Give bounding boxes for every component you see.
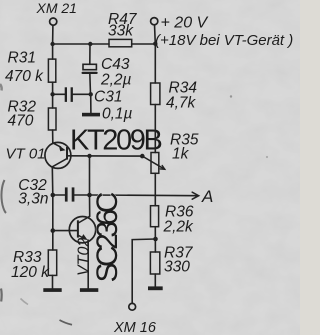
- scan artifact left edge dash lower: [0, 289, 3, 302]
- resistor R34: [151, 83, 160, 105]
- resistor R37: [150, 252, 159, 274]
- svg-text:(+18V bei VT-Gerät ): (+18V bei VT-Gerät ): [155, 32, 293, 49]
- VT02 collector: [79, 216, 90, 222]
- node C43/C31 junction: [89, 92, 93, 96]
- svg-text:120 k: 120 k: [11, 264, 50, 281]
- terminal XM16: [129, 303, 136, 310]
- wire collector node to VT02 base node: [52, 195, 54, 231]
- wire R32 to VT01: [52, 130, 54, 143]
- wire C32 to output node: [74, 194, 89, 196]
- node R35 wiper junction: [140, 154, 145, 159]
- svg-text:C31: C31: [94, 89, 122, 106]
- scan artifact left edge mark upper: [0, 84, 2, 91]
- VT01 emitter with arrow: [53, 143, 61, 147]
- resistor R31: [48, 59, 55, 82]
- svg-text:R31: R31: [8, 50, 36, 67]
- capacitor C31 right plate: [71, 87, 73, 102]
- arrow A: [192, 192, 199, 199]
- ground below R33: [43, 288, 61, 292]
- wire C43 branch down: [89, 44, 91, 64]
- wire R33 to ground: [52, 275, 54, 288]
- R35 wiper arrow: [142, 156, 164, 169]
- node C32/collector VT02 junction: [87, 193, 92, 198]
- wire VT01 collector down: [51, 167, 54, 195]
- wire +20V to rail: [154, 25, 157, 83]
- svg-text:XM 16: XM 16: [113, 320, 157, 335]
- terminal +20V: [151, 18, 158, 25]
- svg-text:A: A: [201, 187, 213, 206]
- wire base node down to C32 node: [89, 156, 91, 195]
- node VT02 base junction: [51, 228, 56, 233]
- ground below R37: [148, 286, 163, 290]
- wire top bus: [53, 43, 109, 45]
- svg-text:330: 330: [164, 259, 190, 276]
- node base branch junction: [87, 154, 91, 158]
- capacitor C43 bottom plate: [83, 72, 97, 74]
- node collector/C32 junction: [51, 193, 56, 198]
- wire VT02 emitter down: [87, 240, 89, 288]
- scan artifact bottom tick: [60, 320, 73, 325]
- svg-text:4,7k: 4,7k: [166, 95, 197, 112]
- wire R34 to R35: [154, 105, 156, 153]
- VT01 base bar: [66, 147, 68, 160]
- svg-text:2,2k: 2,2k: [163, 219, 195, 236]
- resistor R36: [151, 206, 159, 227]
- svg-text:0,1µ: 0,1µ: [102, 105, 133, 122]
- capacitor C31 left plate: [65, 87, 67, 102]
- potentiometer R35: [151, 153, 159, 174]
- wire C43 to C31 node: [89, 73, 92, 94]
- svg-text:470: 470: [8, 113, 34, 130]
- svg-text:1k: 1k: [172, 146, 190, 163]
- wire R35 to R36: [154, 173, 156, 205]
- transistor VT02: [69, 217, 95, 243]
- wire VT02 collector up: [89, 195, 91, 216]
- scan speck: [230, 95, 232, 97]
- svg-text:2,2µ: 2,2µ: [100, 72, 132, 89]
- ground below C31: [82, 113, 100, 117]
- svg-text:SC236C: SC236C: [91, 192, 124, 282]
- svg-text:+ 20 V: + 20 V: [161, 14, 209, 31]
- node R31/R32/C31 junction: [50, 92, 54, 96]
- scan artifact small mark: [21, 299, 29, 305]
- VT01 collector: [52, 159, 66, 167]
- wire C31 left lead: [53, 93, 65, 95]
- wire XM21 to top node: [52, 25, 54, 44]
- C32 right plate: [72, 187, 75, 201]
- wire R36 to R37: [154, 227, 156, 252]
- wire R31 to C31 node: [52, 82, 54, 94]
- svg-text:C43: C43: [101, 56, 130, 73]
- wire output A line: [90, 194, 198, 197]
- svg-text:3,3n: 3,3n: [18, 191, 48, 208]
- wire XM16 branch: [132, 239, 155, 303]
- wire C31 right lead: [73, 93, 91, 95]
- resistor R47: [109, 39, 132, 46]
- wire collector node to C32: [53, 194, 65, 196]
- svg-text:33k: 33k: [108, 23, 134, 40]
- wire VT02 base lead: [53, 230, 77, 232]
- wire C31 node to R32: [52, 94, 54, 108]
- wire R47 to +20V rail: [132, 43, 156, 45]
- VT02 base bar: [77, 220, 79, 237]
- svg-text:470 k: 470 k: [5, 68, 44, 85]
- wire VT01 base lead: [68, 155, 142, 157]
- resistor R32: [48, 108, 56, 130]
- resistor R33: [48, 250, 56, 275]
- svg-text:KT209B: KT209B: [70, 124, 161, 156]
- VT02 emitter with arrow: [79, 236, 83, 238]
- wire VT02 base node to R33: [52, 231, 54, 250]
- scan artifact left edge smudge: [1, 180, 6, 213]
- node R36/R37/XM16 junction: [153, 237, 158, 242]
- terminal XM21: [50, 18, 57, 25]
- capacitor C43 top plate: [83, 64, 96, 69]
- node C43 branch junction: [88, 42, 92, 46]
- wire C31 node to ground: [90, 94, 92, 113]
- C32 left plate: [65, 187, 68, 201]
- ground below VT02 emitter: [80, 288, 98, 292]
- node right rail top junction: [153, 42, 157, 46]
- wire top node to R31: [52, 44, 54, 59]
- transistor VT01: [45, 142, 71, 168]
- svg-text:XM 21: XM 21: [36, 0, 77, 16]
- svg-text:VT 01: VT 01: [6, 145, 46, 162]
- node top-left junction: [50, 42, 54, 46]
- wire R37 to ground: [154, 274, 156, 287]
